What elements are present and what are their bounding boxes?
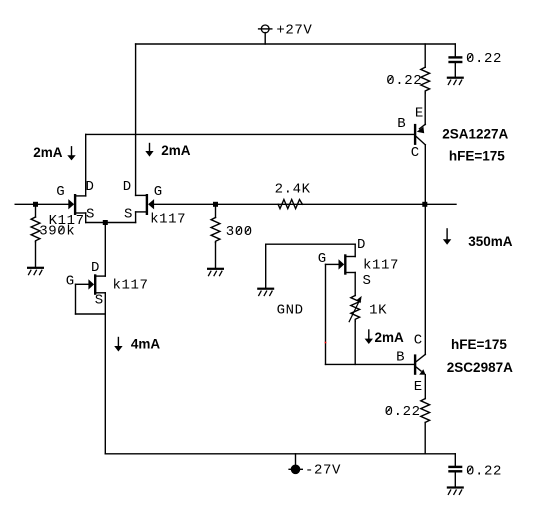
wire Q4 source down to 1K <box>354 273 356 296</box>
svg-text:B: B <box>397 116 406 132</box>
wire left branch from rail down to right JFET drain <box>135 44 137 195</box>
svg-text:D: D <box>357 237 366 253</box>
current arrow (2mA, bias) <box>365 330 373 344</box>
svg-text:C: C <box>414 333 423 349</box>
svg-text:-27V: -27V <box>305 463 341 479</box>
svg-text:S: S <box>95 293 104 309</box>
resistor 0.22 (top, emitter of 2SA1227A) <box>421 44 430 125</box>
svg-text:k117: k117 <box>363 258 399 274</box>
svg-text:0.22: 0.22 <box>386 73 422 89</box>
svg-text:+27V: +27V <box>276 23 312 39</box>
ground (top right cap) <box>447 77 464 86</box>
wire top +27V rail <box>136 43 456 45</box>
wire bottom -27V rail <box>105 453 455 455</box>
ground (GND) <box>257 288 274 297</box>
node output junction <box>422 202 427 207</box>
svg-text:2mA: 2mA <box>375 330 405 345</box>
wire PNP collector down to output node and NPN collector <box>424 145 426 355</box>
transistor 2SA1227A (PNP) <box>414 124 425 145</box>
slashes in zeros of 300 <box>236 228 250 234</box>
wire gate vertical of Q4 down to NPN base line <box>325 264 327 364</box>
wire from sources down to current-source JFET drain <box>104 223 106 277</box>
+27V supply symbol <box>259 25 272 44</box>
-27V supply symbol <box>289 454 302 474</box>
svg-text:0.22: 0.22 <box>466 464 502 480</box>
slash in zero <box>467 55 472 61</box>
JFET Q1 K117 (left of pair) <box>68 194 85 223</box>
wire input line <box>15 203 68 205</box>
wire GND drop <box>265 244 267 287</box>
capacitor C1 0.22 (top right) <box>448 44 462 77</box>
svg-text:2mA: 2mA <box>161 143 191 158</box>
slash in zero <box>467 467 472 473</box>
svg-text:2SA1227A: 2SA1227A <box>442 126 508 141</box>
resistor 2.4K <box>278 200 302 209</box>
svg-text:S: S <box>86 206 95 222</box>
resistor 300 <box>211 204 220 267</box>
wire gate line to output node <box>154 203 456 205</box>
svg-text:GND: GND <box>277 303 304 319</box>
svg-text:1K: 1K <box>369 303 387 319</box>
svg-text:hFE=175: hFE=175 <box>451 337 507 352</box>
JFET Q3 k117 (current source for diff pair, gate tied to source) <box>76 274 106 314</box>
transistor 2SC2987A (NPN) <box>414 354 426 374</box>
current arrow (right 2mA) <box>145 144 153 157</box>
ground (300) <box>207 268 224 277</box>
slash in zero <box>388 77 393 83</box>
svg-text:0.22: 0.22 <box>466 51 502 67</box>
wire left JFET drain vertical <box>85 134 87 196</box>
JFET Q4 k117 (bias) <box>326 244 356 275</box>
svg-text:k117: k117 <box>150 212 186 228</box>
node 300 junction <box>213 202 218 207</box>
svg-text:2.4K: 2.4K <box>275 182 311 198</box>
svg-text:E: E <box>414 379 423 395</box>
wire 1K bottom to base line <box>354 321 356 364</box>
svg-text:350mA: 350mA <box>468 234 513 249</box>
current arrow (left 2mA) <box>67 147 75 161</box>
capacitor C2 0.22 (bottom right) <box>448 454 462 487</box>
ground (bottom right cap) <box>447 486 464 495</box>
resistor 390k <box>31 204 40 266</box>
wire NPN base line <box>326 363 414 365</box>
svg-text:G: G <box>66 273 75 289</box>
svg-text:B: B <box>396 350 405 366</box>
wire NPN emitter down to 0.22 <box>424 375 426 399</box>
slash in zero of 390k <box>59 227 64 233</box>
node sources junction <box>103 220 108 225</box>
svg-text:D: D <box>86 179 95 195</box>
svg-text:C: C <box>411 145 420 161</box>
svg-text:S: S <box>124 206 133 222</box>
resistor 0.22 (bottom, emitter of 2SC2987A) <box>421 399 430 454</box>
svg-text:4mA: 4mA <box>131 337 161 352</box>
JFET Q2 k117 (right of pair) <box>136 194 155 223</box>
svg-text:D: D <box>123 179 132 195</box>
node input/390k junction <box>33 202 38 207</box>
stray red pixel <box>325 342 327 344</box>
svg-text:2mA: 2mA <box>33 145 63 160</box>
wire long vertical down to bottom rail <box>104 314 106 454</box>
svg-text:2SC2987A: 2SC2987A <box>447 360 513 375</box>
svg-text:390k: 390k <box>39 224 75 240</box>
svg-text:G: G <box>56 184 65 200</box>
svg-text:300: 300 <box>226 224 253 240</box>
ground (390k) <box>27 267 44 276</box>
svg-text:hFE=175: hFE=175 <box>449 148 505 163</box>
wire loop: GND to middle JFET drain <box>266 243 356 245</box>
current arrow (4mA) <box>114 338 122 352</box>
svg-text:k117: k117 <box>113 278 149 294</box>
slash in zero <box>386 408 391 414</box>
svg-text:G: G <box>154 184 163 200</box>
svg-text:S: S <box>363 273 372 289</box>
svg-text:0.22: 0.22 <box>385 404 421 420</box>
current arrow (350mA) <box>443 229 451 245</box>
wire source join line <box>86 222 136 224</box>
svg-text:D: D <box>91 260 100 276</box>
svg-text:E: E <box>415 105 424 121</box>
wire base line from left JFET drain to PNP base <box>86 133 414 135</box>
variable resistor 1K <box>349 296 362 323</box>
